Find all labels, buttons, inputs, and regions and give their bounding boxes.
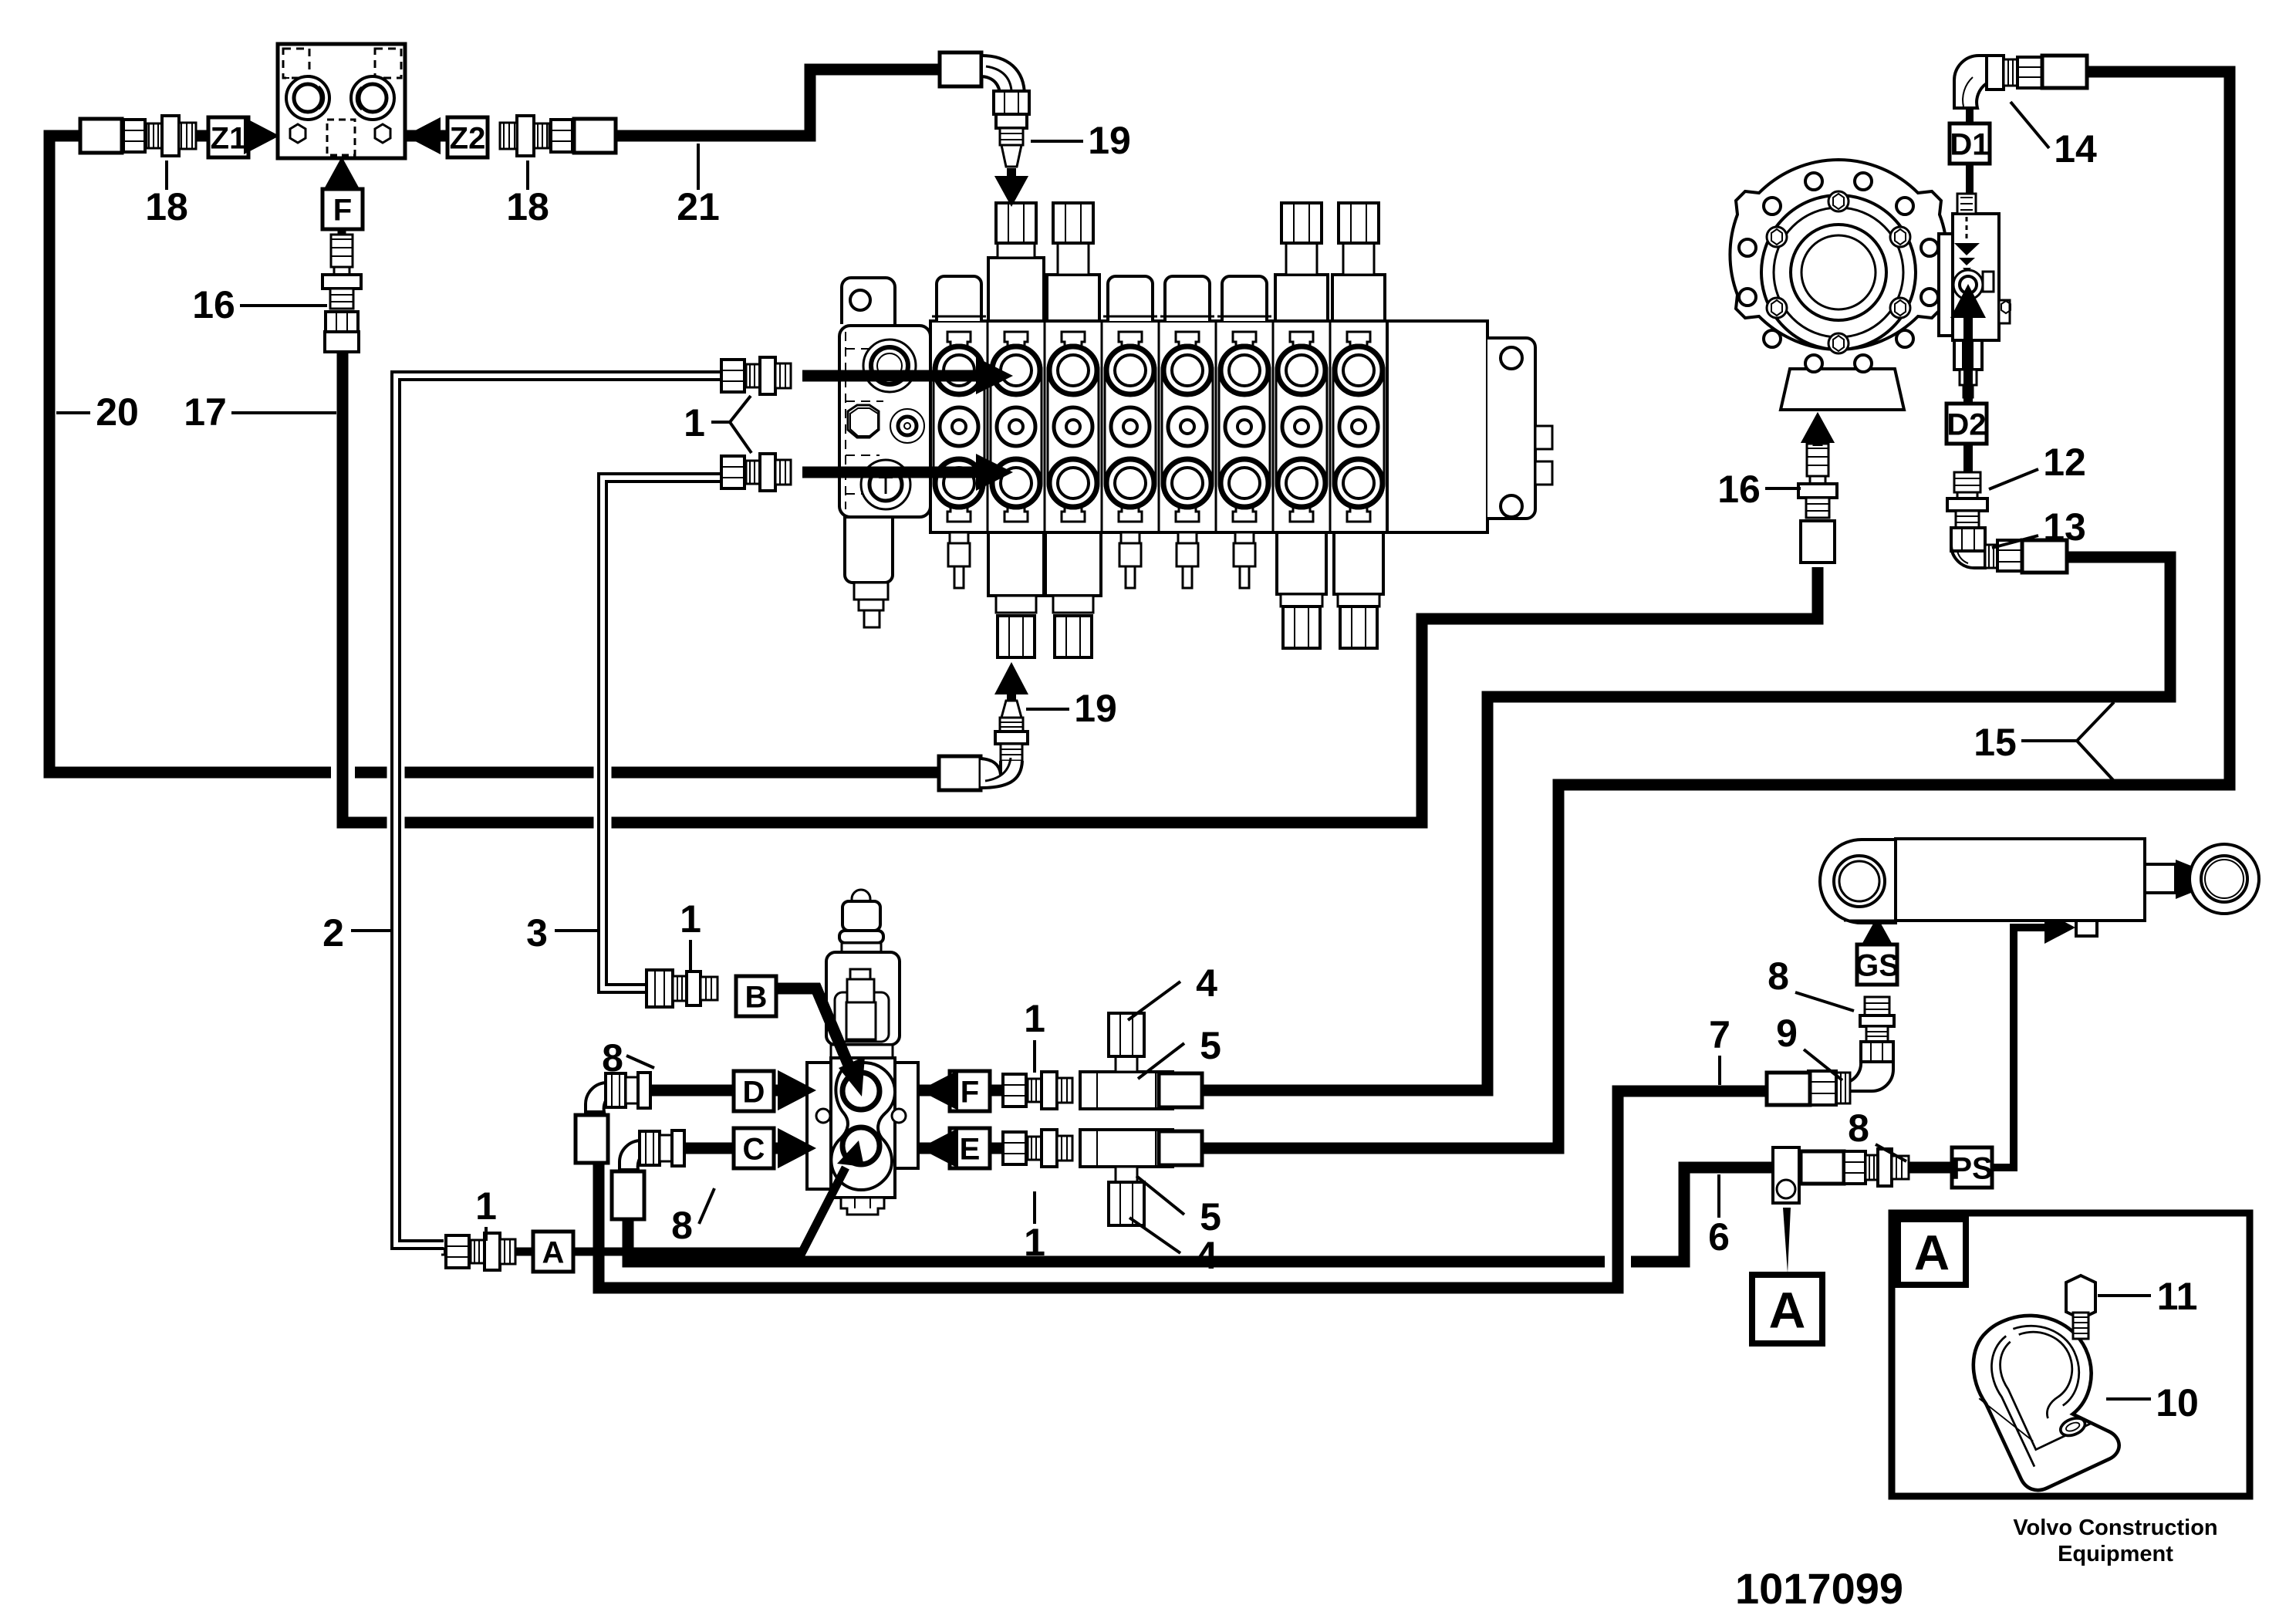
label box D2 <box>1947 404 1987 444</box>
wire Z1 arrow overlay <box>244 117 279 154</box>
fitting 8 below GS <box>1860 997 1894 1042</box>
valve section 3 <box>1048 321 1102 532</box>
brake valve (D1/D2) <box>1939 194 2011 397</box>
wire motor arrow overlay <box>1813 437 1823 446</box>
rotator motor flange <box>1730 160 1947 410</box>
svg-text:10: 10 <box>2156 1381 2199 1424</box>
svg-text:6: 6 <box>1708 1215 1730 1259</box>
valve section 6 top cap <box>1222 276 1267 321</box>
label box F <box>950 1071 990 1111</box>
valve section 8 top tower + hex fitting <box>1332 275 1385 321</box>
wire F row arrow line <box>920 1085 1011 1097</box>
valve section 5 bottom plunger <box>1178 532 1197 543</box>
label box Z1 <box>208 117 248 157</box>
wire PS line to cylinder port with arrow <box>1993 928 2046 1168</box>
main control valve assembly <box>839 278 1387 627</box>
wire E arrow overlay <box>920 1128 958 1168</box>
fitting 19 top stack <box>994 91 1029 167</box>
fitting 19 bottom stack + arrow up <box>1007 694 1016 702</box>
svg-text:19: 19 <box>1088 119 1131 162</box>
svg-text:Equipment: Equipment <box>2058 1542 2173 1566</box>
svg-text:D: D <box>743 1075 765 1109</box>
valve section 4 <box>1105 321 1159 532</box>
label box F <box>322 189 363 229</box>
T fitting 5 with nut 4 (E row) <box>1080 1130 1173 1225</box>
label box GS <box>1855 944 1899 985</box>
wire D arrow overlay <box>774 1085 781 1097</box>
bottom selector valve block <box>807 890 918 1215</box>
valve section 8 <box>1333 332 1384 522</box>
svg-text:3: 3 <box>526 911 548 955</box>
wire motor feed arrow <box>1813 437 1823 446</box>
manifold block (top left, Z1/Z2/F) <box>278 44 405 158</box>
wire D2 column <box>1963 397 1971 404</box>
clamp 10 <box>1974 1316 2119 1490</box>
wire B diagonal overlay <box>775 988 852 1073</box>
fitting 16 below motor <box>1798 444 1837 555</box>
svg-text:16: 16 <box>192 283 235 326</box>
svg-text:9: 9 <box>1776 1012 1798 1055</box>
wire A row line and diagonal into lower port <box>441 1248 532 1256</box>
wire D1 column <box>1966 105 1974 123</box>
valve section 2 bottom tower + hex <box>988 532 1044 596</box>
svg-text:15: 15 <box>1974 721 2017 764</box>
wire GS arrow into cylinder <box>1872 935 1882 946</box>
valve section 4 top cap <box>1108 276 1153 321</box>
svg-text:D2: D2 <box>1947 407 1986 441</box>
label box A <box>1898 1219 1966 1285</box>
inset detail box A <box>1892 1213 2250 1496</box>
valve section 2 top tower + hex fitting <box>988 258 1044 321</box>
valve section 2 <box>991 321 1045 532</box>
wire hose 7 casing over hose 6 <box>1605 1254 1631 1270</box>
svg-text:11: 11 <box>2157 1275 2198 1318</box>
coupling 1 on F row <box>1003 1072 1072 1109</box>
wire arrow 19 up overlay <box>994 662 1028 694</box>
hydraulic cylinder <box>1820 839 2259 923</box>
valve section 3 bottom tower + hex <box>1045 532 1101 596</box>
valve section 7 <box>1276 321 1330 532</box>
svg-text:8: 8 <box>1848 1107 1869 1150</box>
svg-text:Volvo Construction: Volvo Construction <box>2013 1516 2217 1540</box>
wire E row arrow line <box>920 1143 1011 1154</box>
label box PS <box>1951 1147 1992 1188</box>
svg-text:17: 17 <box>184 390 227 434</box>
wire tube 3 (lower coupling to B coupling) <box>603 478 725 988</box>
hose end + elbow at valve top (item 19 top) <box>940 52 981 86</box>
svg-text:5: 5 <box>1200 1195 1221 1238</box>
bolt 11 <box>2066 1276 2095 1339</box>
svg-text:5: 5 <box>1200 1024 1221 1067</box>
valve section 8 bottom tower + hex <box>1334 532 1383 594</box>
svg-text:D1: D1 <box>1950 127 1989 161</box>
svg-text:19: 19 <box>1074 687 1117 730</box>
wire hose 15a (D2/13 to F row) <box>1204 557 2170 1090</box>
elbow 13 <box>1951 528 2067 573</box>
coupling 1 upper feed <box>721 357 791 394</box>
wire C row line with arrow into valve <box>684 1143 779 1154</box>
wire arrow 19 down overlay <box>1007 168 1016 182</box>
wire upper feed line 1 into valve section 2 <box>802 370 980 382</box>
svg-text:18: 18 <box>145 185 188 228</box>
label box B <box>736 976 776 1016</box>
elbow fitting 14 <box>1954 56 2087 108</box>
wire hose 15b (D1/14 to E row) <box>1204 72 2230 1148</box>
label box Z2 <box>447 117 488 157</box>
valve section 5 top cap <box>1165 276 1210 321</box>
svg-text:21: 21 <box>677 185 720 228</box>
svg-text:12: 12 <box>2043 441 2086 484</box>
svg-text:C: C <box>743 1132 765 1166</box>
coupling 1 on E row <box>1003 1130 1072 1167</box>
wire B row line and diagonal into upper port <box>775 988 855 1079</box>
valve section 1 <box>934 321 988 532</box>
svg-text:8: 8 <box>602 1036 623 1080</box>
valve section 5 <box>1162 321 1216 532</box>
svg-text:14: 14 <box>2054 127 2097 171</box>
wire Z2 arrow overlay <box>405 117 441 154</box>
wire tube 2 (upper coupling to A coupling) <box>396 376 725 1245</box>
svg-text:13: 13 <box>2043 505 2086 549</box>
svg-text:A: A <box>542 1235 565 1269</box>
wire hose 7 (elbow 9 to D-port tail) <box>599 1091 1782 1288</box>
wire D row line with arrow into valve <box>650 1085 779 1097</box>
wire arrow up through brake valve (D2 feed) <box>1963 318 1973 472</box>
wire hose 17 (F port to motor fitting 16) <box>343 349 1818 823</box>
elbow 8 + hose end on D row <box>576 1073 650 1163</box>
label box A <box>1752 1275 1822 1343</box>
svg-text:GS: GS <box>1855 948 1899 982</box>
svg-text:20: 20 <box>96 390 139 434</box>
wire upper feed line 1 overlay <box>808 370 980 382</box>
svg-text:16: 16 <box>1717 468 1761 511</box>
wire A diagonal overlay <box>573 1168 846 1252</box>
svg-text:4: 4 <box>1196 961 1217 1005</box>
svg-text:A: A <box>1914 1225 1950 1281</box>
clamp on hose 6 (pointer A) <box>1773 1147 1799 1203</box>
svg-text:F: F <box>333 193 352 227</box>
svg-text:1: 1 <box>475 1184 497 1228</box>
wire F box to fitting 16 stub <box>338 228 346 236</box>
svg-text:1: 1 <box>680 897 701 941</box>
hose end + elbow at valve bottom (hose 20 end) <box>939 756 981 790</box>
fitting 12 <box>1947 472 1987 528</box>
valve section 1 bottom plunger <box>950 532 968 543</box>
label box D <box>734 1071 774 1111</box>
label box D1 <box>1950 123 1990 164</box>
svg-text:1: 1 <box>1024 1221 1045 1264</box>
elbow 9 <box>1767 1042 1893 1105</box>
wire hose 6 (PS to C-port tail) <box>628 1168 1956 1262</box>
T fitting 5 with nut 4 (F row) <box>1080 1013 1173 1109</box>
label box E <box>950 1128 990 1168</box>
svg-text:Z2: Z2 <box>450 121 486 155</box>
svg-text:1: 1 <box>684 401 705 444</box>
fitting 18 right (mirrored) <box>500 116 616 156</box>
cylinder rod-side port <box>2076 907 2097 936</box>
svg-text:PS: PS <box>1951 1151 1992 1185</box>
fitting 1 on B row <box>647 970 717 1007</box>
valve right end plate and bracket <box>1387 321 1487 532</box>
wire arrow 19 down into valve <box>1007 168 1016 182</box>
svg-text:8: 8 <box>671 1204 693 1247</box>
valve section 1 top cap <box>937 276 981 321</box>
valve section 6 <box>1219 321 1273 532</box>
wire F arrow overlay <box>920 1070 958 1110</box>
wire lower feed line 1 overlay <box>808 467 980 478</box>
svg-text:1017099: 1017099 <box>1735 1564 1903 1613</box>
svg-text:E: E <box>960 1132 981 1166</box>
wire hose 20 (left tank line) <box>49 136 939 772</box>
label box C <box>734 1128 774 1168</box>
svg-text:A: A <box>1769 1281 1806 1338</box>
svg-text:B: B <box>745 980 768 1014</box>
valve section 3 top tower + hex fitting <box>1047 275 1099 321</box>
label box A <box>533 1232 573 1272</box>
wire F arrow into manifold bottom <box>337 174 347 193</box>
svg-text:2: 2 <box>322 911 344 955</box>
valve section 7 top tower + hex fitting <box>1275 275 1328 321</box>
elbow 8 + hose end on C row <box>612 1130 684 1219</box>
svg-text:8: 8 <box>1768 955 1789 998</box>
wire Z1 row stub and arrow into manifold <box>194 130 255 142</box>
valve section 7 bottom tower + hex <box>1277 532 1326 594</box>
valve section 4 bottom plunger <box>1121 532 1140 543</box>
coupling 1 lower feed <box>721 454 791 491</box>
fitting 16 under F box <box>322 235 361 346</box>
fitting 1 on A row <box>446 1233 515 1270</box>
wire Z2 row arrow into manifold <box>403 130 451 142</box>
svg-text:1: 1 <box>1024 997 1045 1040</box>
svg-text:4: 4 <box>1196 1234 1217 1277</box>
svg-text:18: 18 <box>506 185 549 228</box>
wire lower feed line 1 into valve section 2 <box>802 467 980 478</box>
valve section 6 bottom plunger <box>1235 532 1254 543</box>
svg-text:F: F <box>961 1075 979 1109</box>
fitting 8 + coupling on PS row <box>1801 1151 1844 1184</box>
wire hose 17 casing at crossing of hose 20 <box>331 764 355 782</box>
wire C arrow overlay <box>774 1143 781 1154</box>
fitting 18 left <box>80 116 196 156</box>
wire hose 21 (Z2 to valve top elbow) <box>616 69 941 136</box>
svg-text:7: 7 <box>1709 1013 1730 1056</box>
svg-text:Z1: Z1 <box>211 121 247 155</box>
